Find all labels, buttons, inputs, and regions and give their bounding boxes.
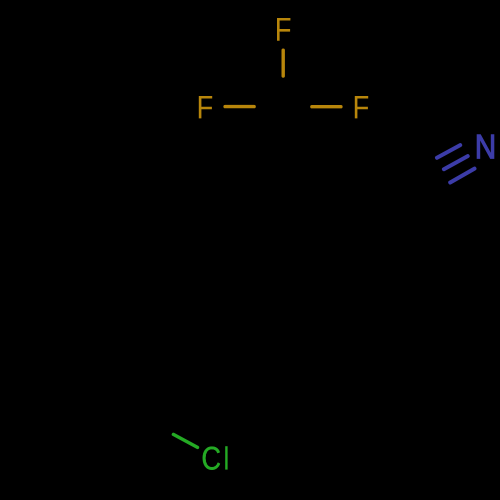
atom F3 (right fluorine label) — [355, 96, 368, 118]
triple bond C#N line 3 (lower) — [450, 169, 474, 183]
atom N (nitrile nitrogen label) — [477, 135, 494, 159]
atom F1 (top fluorine label) — [277, 18, 290, 41]
bond C-F3 (horizontal half-bond segment) — [312, 105, 341, 108]
triple bond C#N line 2 (middle) — [444, 156, 468, 169]
atom Cl letter l — [225, 446, 227, 469]
bond C-Cl (diagonal half-bond segment) — [173, 434, 197, 447]
bond C-F2 (horizontal half-bond segment) — [225, 105, 254, 108]
atom F2 (left fluorine label) — [199, 96, 212, 118]
atom Cl letter C (chlorine label) — [203, 447, 220, 470]
triple bond C#N line 1 (upper) — [437, 145, 460, 158]
bond C-F1 (vertical half-bond segment) — [282, 50, 285, 76]
